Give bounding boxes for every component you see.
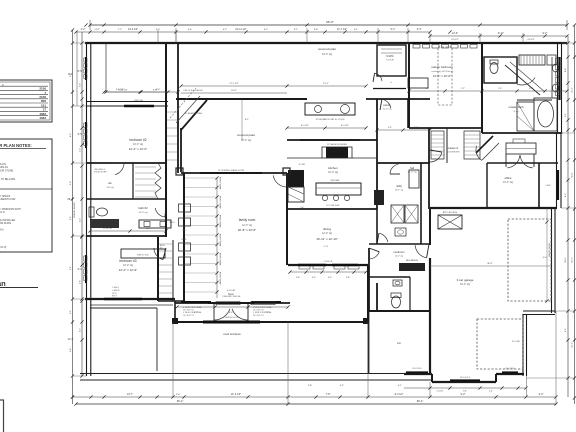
svg-text:4'-6 1/2": 4'-6 1/2" (527, 39, 535, 41)
office room (487, 163, 558, 209)
entry flanking window left (181, 302, 211, 317)
bed wing second wall (177, 43, 179, 173)
svg-text:4&#39;-1&#34;: 4&#39;-1&#34; (220, 252, 222, 265)
svg-text:10'-0" clg: 10'-0" clg (503, 181, 513, 184)
svg-text:4'-4": 4'-4" (188, 29, 193, 31)
svg-text:ROD AT 68" AFF: ROD AT 68" AFF (94, 170, 107, 173)
svg-text:raised clg 10/12 flat pl: raised clg 10/12 flat pl (431, 70, 453, 73)
svg-text:4 1/2": 4 1/2" (94, 29, 99, 31)
master bath door diagonals (505, 62, 545, 95)
svg-text:8'0: 8'0 (160, 248, 162, 250)
svg-text:15'-2": 15'-2" (572, 257, 574, 263)
svg-text:10'-0" clg: 10'-0" clg (133, 143, 143, 146)
svg-text:ARCH: ARCH (160, 244, 166, 247)
label master bedroom (431, 65, 453, 78)
svg-text:16'-0": 16'-0" (231, 90, 237, 92)
bath2 walls (86, 163, 166, 199)
kitchen sink wall marks (374, 170, 419, 205)
svg-text:3'-1": 3'-1" (294, 29, 299, 31)
bottom-left slab rectangle (90, 305, 173, 371)
svg-text:covered patio: covered patio (318, 47, 336, 51)
svg-text:3'-8": 3'-8" (314, 29, 319, 31)
right interior dim row y91 (407, 88, 568, 93)
svg-text:office: office (504, 176, 511, 180)
left mid dim col x242 (242, 99, 249, 140)
right dimension line outer (573, 25, 576, 404)
svg-text:4'-0": 4'-0" (312, 277, 316, 279)
svg-text:FLEX SHELVES: FLEX SHELVES (446, 152, 460, 154)
washer dryer (391, 205, 418, 236)
svg-text:4'-2": 4'-2" (340, 385, 344, 387)
sheet title 'floor plan' (cut off) (0, 279, 38, 288)
exterior wall: garage front left bay (404, 373, 432, 375)
svg-text:8'-2": 8'-2" (245, 119, 249, 121)
top secondary dimension line (74, 28, 431, 34)
svg-text:4'-1": 4'-1" (354, 29, 359, 31)
dense ticks right dims (566, 23, 576, 341)
extension line foyer to bottom dim (287, 322, 289, 404)
linen shelves (519, 55, 556, 65)
svg-text:10'-0" clg: 10'-0" clg (460, 283, 470, 286)
svg-text:NICHE: NICHE (182, 239, 187, 241)
svg-text:2'-8": 2'-8" (346, 277, 350, 279)
svg-text:ARCH: ARCH (170, 221, 176, 224)
svg-text:# 3050 L: # 3050 L (112, 287, 119, 289)
bedroom2 south wall (86, 162, 166, 164)
interior dim verticals left of plan (158, 30, 176, 43)
svg-text:10'-0" clg: 10'-0" clg (139, 212, 149, 214)
powder front wall (368, 283, 430, 311)
label hall (408, 166, 418, 174)
interior dim row above entry (175, 305, 289, 314)
svg-text:4 2X6 DR: 4 2X6 DR (324, 261, 333, 263)
svg-text:4063: 4063 (39, 116, 46, 120)
exterior wall: garage right upper (552, 208, 556, 313)
svg-text:20'-8" x 20'-8": 20'-8" x 20'-8" (238, 228, 256, 232)
svg-text:kitchen: kitchen (328, 166, 338, 170)
bedroom2 door (112, 163, 124, 175)
bedrooms east corridor wall (165, 43, 167, 237)
bedroom3 front wall (85, 298, 175, 300)
svg-text:7'-2": 7'-2" (461, 88, 465, 90)
svg-text:16 9 3/4" PLT: 16 9 3/4" PLT (253, 315, 265, 317)
label kitchen (328, 166, 338, 174)
hall/linen walls mid (173, 175, 175, 299)
hall dim column (185, 176, 222, 298)
svg-text:SHELF & ROD: SHELF & ROD (137, 255, 150, 257)
family room sliding door wall (181, 172, 287, 174)
covered patio north wall (176, 98, 307, 100)
mud-utility door (377, 233, 388, 244)
svg-text:7'-2": 7'-2" (118, 29, 123, 31)
interior dim row bed2 bottom (88, 228, 167, 233)
front slab edge lines full width (80, 374, 432, 381)
dense ticks top rows (305, 23, 546, 37)
svg-text:29&#39;-4&#34;: 29&#39;-4&#34; (74, 202, 76, 218)
svg-text:14'-0" x 16'-0": 14'-0" x 16'-0" (433, 74, 451, 78)
svg-text:# 3050: # 3050 (545, 185, 551, 187)
covered patio left wall (180, 128, 182, 172)
label mudroom (394, 250, 405, 258)
svg-text:5'-8": 5'-8" (463, 391, 467, 393)
svg-text:2'-8": 2'-8" (296, 277, 300, 279)
svg-text:SIT DN BAR 16' DBL SL. DOOR: SIT DN BAR 16' DBL SL. DOOR (316, 118, 345, 121)
closet shelves lower (159, 244, 172, 293)
svg-text:master cl: master cl (448, 146, 459, 150)
area summary table (cut off at left edge) (0, 80, 52, 122)
exterior wall: garage front center recessed bay (432, 374, 496, 382)
svg-text:bath #2: bath #2 (138, 206, 148, 210)
hall dim row y130 (375, 127, 431, 132)
patio dim row (285, 125, 367, 130)
svg-text:# 3050 SH: # 3050 SH (133, 100, 143, 102)
master tub (534, 98, 557, 131)
misc vertical dim texts rotated (74, 202, 76, 218)
svg-text:1'-6": 1'-6" (176, 394, 181, 396)
svg-text:utility: utility (396, 184, 403, 188)
exterior wall: garage right lower (523, 314, 527, 376)
svg-text:3'-2": 3'-2" (70, 310, 72, 314)
svg-text:60'-4": 60'-4" (417, 399, 424, 403)
garage side texts (512, 257, 548, 343)
svg-text:9' clg: 9' clg (513, 111, 519, 113)
svg-text:17'-7 1/2": 17'-7 1/2" (229, 83, 238, 85)
svg-text:5'-2": 5'-2" (388, 127, 392, 129)
svg-text:4&#39;-1&#34;: 4&#39;-1&#34; (220, 233, 222, 246)
front porch wall (175, 321, 368, 323)
dense texts top row2 (118, 29, 359, 31)
storage room label (397, 342, 401, 345)
porch right wall (367, 265, 369, 322)
svg-text:5'-6": 5'-6" (79, 83, 81, 87)
exterior wall: garage left (429, 209, 431, 374)
garage door bar center (450, 377, 480, 381)
svg-text:16'-11" x 12'-10": 16'-11" x 12'-10" (316, 237, 338, 241)
svg-text:E: E (2, 84, 4, 88)
left dimension line outer (67, 30, 74, 404)
wic top right room (373, 45, 406, 89)
exterior wall: right side office (555, 133, 563, 208)
svg-text:9'-2": 9'-2" (70, 73, 72, 77)
more ticks bottom (102, 395, 341, 398)
porch left wall (174, 301, 176, 322)
svg-text:36" RANGE W/ MW ABV: 36" RANGE W/ MW ABV (327, 143, 348, 146)
label bedroom2 (129, 138, 147, 151)
svg-text:8'-2 1/2": 8'-2 1/2" (395, 393, 404, 396)
svg-text:12'-0" clg: 12'-0" clg (322, 232, 332, 235)
master west wall (408, 43, 410, 128)
svg-text:4'-11": 4'-11" (324, 246, 329, 248)
svg-text:8'-1 1/2": 8'-1 1/2" (301, 125, 309, 127)
master shower (517, 102, 534, 131)
svg-text:DW: DW (301, 207, 304, 209)
svg-text:BRK BAR: BRK BAR (331, 179, 340, 182)
svg-text:F (U.N.O): F (U.N.O) (0, 246, 7, 249)
entry flanking window right (251, 302, 281, 317)
svg-text:21'-11 1/2": 21'-11 1/2" (235, 28, 246, 31)
svg-text:# 3068 DBL DOOR: # 3068 DBL DOOR (223, 317, 239, 319)
kitchen counter top (287, 157, 377, 159)
porch beam thick segment (203, 321, 260, 324)
bottom overall dimension line (74, 399, 557, 406)
lower-left title block box (cut off) (0, 400, 4, 432)
misc dim texts top (94, 29, 535, 41)
entry front wall with doors (175, 302, 290, 304)
svg-text:mudroom: mudroom (394, 250, 405, 254)
bedroom3 left window (84, 255, 87, 283)
label bedroom3 (119, 259, 137, 272)
svg-text:6'-2": 6'-2" (79, 328, 81, 332)
label master bath (509, 105, 524, 113)
svg-text:4' SIDE STRUCTURAL: 4' SIDE STRUCTURAL (183, 311, 202, 314)
wic bedroom2 (106, 167, 156, 197)
master bedroom south wall (409, 127, 482, 129)
garage door bar right (502, 368, 518, 373)
svg-text:an: an (0, 279, 6, 288)
range cooktop (322, 147, 352, 158)
svg-text:4' SIDE STRUCTURAL: 4' SIDE STRUCTURAL (253, 306, 272, 309)
svg-text:11'-0": 11'-0" (572, 172, 574, 177)
svg-text:12'-0" clg: 12'-0" clg (242, 224, 252, 227)
bath2 door (155, 206, 166, 217)
garage interior dim (430, 208, 551, 303)
svg-text:45 BEARING WALL: 45 BEARING WALL (185, 112, 204, 115)
svg-text:3'-4": 3'-4" (417, 28, 422, 31)
floor plan notes box (0, 139, 52, 252)
label family room (238, 218, 256, 232)
exterior wall: rear (top) full width (85, 42, 567, 44)
svg-text:8'-2": 8'-2" (565, 193, 567, 197)
extension lines right wall breaks (527, 43, 575, 378)
more ticks top dim2 (102, 30, 367, 33)
svg-text:3 car garage: 3 car garage (457, 278, 474, 282)
svg-text:8'-9 1/2": 8'-9 1/2" (451, 39, 459, 41)
entry double doors (208, 303, 254, 321)
svg-text:5'-4": 5'-4" (565, 113, 567, 117)
master bedroom window hatches (412, 43, 478, 48)
bed wing east wall lower (157, 237, 159, 301)
hall built-in niches (179, 204, 191, 265)
pantry door (380, 99, 391, 110)
svg-text:PLT 9': PLT 9' (112, 296, 118, 298)
left dimension line inner (78, 32, 84, 378)
bedroom2 left window (84, 122, 87, 148)
svg-text:13'-7": 13'-7" (127, 393, 133, 396)
misc tick cluster left top (84, 23, 177, 26)
office window right (557, 170, 559, 200)
garage dashed rect upper (508, 219, 551, 301)
svg-text:2'-4": 2'-4" (489, 391, 493, 393)
exterior wall: right side master bath (558, 43, 562, 133)
master entry door (430, 150, 442, 162)
label master cl (446, 146, 460, 154)
svg-text:11'-4": 11'-4" (68, 338, 74, 341)
label garage (457, 278, 474, 286)
kitchen east wall / pantry (376, 99, 378, 209)
utility door (390, 164, 400, 174)
svg-text:8'-5": 8'-5" (70, 133, 72, 137)
master bath vanity wall (517, 57, 559, 100)
extension lines left wall breaks (73, 43, 87, 376)
label brk bar (331, 179, 340, 182)
bath2 toilet (89, 207, 108, 217)
svg-text:30'-2": 30'-2" (487, 263, 493, 265)
dining dim texts small (324, 246, 329, 248)
hall south wall (377, 162, 430, 164)
svg-text:5'-8": 5'-8" (308, 385, 312, 387)
svg-text:F U.N.O: F U.N.O (0, 211, 5, 214)
svg-text:THIN A: THIN A (0, 229, 4, 232)
svg-text:10'-0" clg: 10'-0" clg (328, 171, 338, 174)
label pantry (383, 103, 393, 111)
bedroom3 window labels (112, 287, 120, 298)
patio columns (176, 168, 290, 175)
svg-text:12'-0" x 12'-9": 12'-0" x 12'-9" (119, 268, 137, 272)
svg-text:4'-2": 4'-2" (79, 148, 81, 152)
svg-text:10'-0" clg: 10'-0" clg (383, 109, 393, 111)
hall-bed wing arch (170, 221, 176, 224)
svg-text:16'-0" clg: 16'-0" clg (241, 139, 251, 142)
label dining (316, 227, 338, 241)
svg-text:M WIC: M WIC (386, 55, 394, 58)
entry porch inner texts (223, 317, 239, 319)
svg-text:OCUMENTS FOR: OCUMENTS FOR (0, 198, 16, 201)
master bath north toilet room (484, 57, 517, 83)
svg-text:MUD BENCH: MUD BENCH (406, 260, 419, 262)
patio roof dashed line (170, 88, 196, 118)
interior dim row dining bottom (288, 270, 367, 279)
office vestibule diagonals (476, 136, 499, 160)
closet-garage west wall (428, 128, 430, 209)
svg-text:10'-0" clg: 10'-0" clg (408, 172, 418, 174)
exterior wall: garage right notch (523, 311, 555, 315)
svg-text:4&#39;-1&#34;: 4&#39;-1&#34; (220, 195, 222, 208)
bedroom3 north wall (86, 235, 166, 237)
svg-text:5'-0": 5'-0" (156, 29, 161, 31)
svg-text:# 3050 N: # 3050 N (112, 290, 120, 292)
svg-text:5'-0": 5'-0" (70, 181, 72, 185)
outdoor kitchen counter (305, 103, 355, 121)
extension line garage-right to bottom dim (527, 311, 557, 404)
svg-text:2'-7": 2'-7" (194, 312, 198, 314)
svg-text:bedroom #2: bedroom #2 (129, 138, 146, 142)
svg-text:4'-0": 4'-0" (539, 393, 544, 396)
bedroom2 closet texts (94, 169, 107, 173)
family/dining divider wall (286, 173, 288, 265)
kitchen/dining divider wall (287, 208, 377, 210)
svg-text:8'-4": 8'-4" (565, 328, 567, 332)
svg-text:4' SIDE STRUCTURAL: 4' SIDE STRUCTURAL (183, 306, 202, 309)
label covered patio lower (237, 133, 255, 142)
svg-text:4'-0": 4'-0" (328, 277, 332, 279)
svg-text:30" REF: 30" REF (299, 164, 307, 166)
bath2 vanity (90, 219, 171, 228)
svg-text:21'-2 1/2": 21'-2 1/2" (231, 393, 241, 396)
svg-text:6'-10 1/2": 6'-10 1/2" (118, 90, 127, 92)
storage room west wall (368, 311, 370, 373)
master bedroom tray dashed (438, 47, 452, 105)
closet shelves right of wic (408, 78, 428, 88)
svg-text:16'-0": 16'-0" (543, 257, 548, 259)
hall closet shelf box (506, 139, 536, 154)
bedroom3 window (104, 298, 142, 301)
svg-text:5'-8": 5'-8" (153, 90, 158, 92)
svg-text:6'-0": 6'-0" (229, 312, 233, 314)
powder sink (393, 280, 402, 286)
office window texts (545, 185, 551, 187)
left wall window top block (84, 57, 87, 80)
svg-text:10'-0" clg: 10'-0" clg (395, 190, 403, 192)
bottom garage dim row (404, 386, 528, 392)
svg-text:9'-5": 9'-5" (78, 133, 83, 136)
svg-text:8'-1 1/2": 8'-1 1/2" (341, 125, 349, 127)
utility room walls (369, 163, 430, 244)
office double doors (506, 154, 534, 168)
svg-text:pantry: pantry (383, 103, 391, 107)
extension line top wall breaks (176, 28, 523, 43)
svg-text:10'-0" clg: 10'-0" clg (395, 256, 403, 258)
kitchen north wall (16' dbl sl door) (287, 139, 377, 141)
svg-text:master bath: master bath (509, 105, 524, 109)
svg-text:4&#39;-1&#34;: 4&#39;-1&#34; (220, 176, 222, 189)
svg-text:12'-2": 12'-2" (572, 342, 574, 348)
svg-text:4'-2": 4'-2" (81, 28, 86, 31)
closet back wall lower (172, 240, 174, 301)
exterior wall: garage front right bay (496, 373, 524, 375)
patio post label (183, 89, 203, 92)
svg-text:14'-2": 14'-2" (572, 87, 574, 93)
svg-text:8'-5": 8'-5" (78, 70, 83, 73)
svg-text:9'-8": 9'-8" (70, 348, 72, 352)
garage dashed rect lower (477, 319, 523, 369)
extension line porch-left to bottom dim (172, 322, 174, 397)
patio angled corner wall (176, 96, 207, 130)
svg-text:10'-0" clg: 10'-0" clg (123, 264, 133, 267)
svg-text:8'-8": 8'-8" (565, 68, 567, 72)
svg-text:8'-0 FLAT: 8'-0 FLAT (227, 289, 236, 292)
hall walls center (158, 300, 184, 302)
svg-text:5'-8": 5'-8" (146, 228, 151, 230)
svg-text:6'-2": 6'-2" (264, 29, 269, 31)
mudroom-garage door (415, 244, 429, 258)
svg-text:9'-2": 9'-2" (461, 393, 466, 396)
family-patio door arc (273, 173, 287, 187)
bedroom3 door (154, 248, 166, 260)
svg-text:6'-1": 6'-1" (398, 385, 402, 387)
dense texts right dim col (565, 68, 574, 348)
pantry north wall (366, 98, 430, 100)
svg-text:FROM PLATE: FROM PLATE (0, 222, 12, 225)
svg-text:9'-1": 9'-1" (70, 266, 72, 270)
hall east wall (407, 99, 409, 128)
svg-text:96'-6": 96'-6" (326, 20, 334, 24)
dining-mud door (369, 248, 379, 259)
svg-text:5'-1": 5'-1" (391, 28, 396, 31)
chase shelves upper strip (167, 112, 177, 160)
svg-text:12'-2" x 12'-0": 12'-2" x 12'-0" (129, 147, 147, 151)
svg-text:4&#39;-1&#34;: 4&#39;-1&#34; (220, 214, 222, 227)
powder room walls (369, 248, 410, 311)
garage door bar left (406, 368, 428, 373)
svg-text:OR PLAN NOTES:: OR PLAN NOTES: (0, 143, 32, 148)
svg-text:R &/OR STONE.: R &/OR STONE. (0, 169, 14, 172)
svg-text:14'-3 1/2": 14'-3 1/2" (128, 28, 138, 31)
svg-text:16&#39;-0&#34;: 16&#39;-0&#34; (549, 242, 551, 257)
svg-text:16' 0 DBL FLAT: 16' 0 DBL FLAT (326, 204, 340, 207)
label wic2 (386, 55, 395, 62)
extension line porch-right to bottom dim (367, 322, 369, 397)
label covered patio upper (318, 47, 336, 56)
